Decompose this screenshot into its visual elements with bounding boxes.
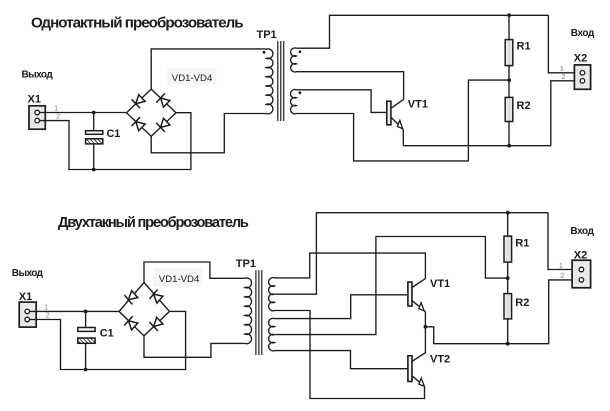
label VT1 bottom ckt [430, 278, 450, 290]
svg-text:C1: C1 [100, 327, 114, 339]
transformer TP1 secondary winding 2 (bottom) [291, 90, 298, 114]
capacitor C1 bottom plate hatched (bottom ckt) [78, 338, 95, 343]
capacitor C1 top plate [86, 131, 103, 135]
wire VT1 emitter to junction [424, 311, 425, 327]
label X2 [574, 52, 587, 64]
X2 bottom pin label 2 [560, 271, 564, 280]
label VT1 [408, 98, 428, 110]
connector X1 [29, 106, 45, 129]
VT1 emitter slant [391, 117, 402, 128]
X1 bottom pin label 1 [44, 302, 48, 311]
wire X1.2 bottom rail (bottom ckt) [30, 311, 186, 369]
svg-text:Вход: Вход [570, 226, 594, 237]
bridge diamond wires (bottom) [119, 283, 169, 336]
resistor R2 (bottom ckt) [504, 294, 512, 319]
X1 pin label 1 [54, 104, 58, 113]
TP1 primary phase dot [263, 51, 266, 54]
transistor VT1 base bar (bottom ckt) [408, 282, 412, 306]
wire R1 stem (bottom ckt) [507, 213, 509, 236]
transformer TP1 right winding lower (bottom ckt) [269, 318, 276, 351]
transformer TP1 core (bottom ckt) [256, 270, 262, 355]
wire top rail to X2 pin1 (bottom ckt) [548, 213, 572, 270]
svg-text:Двухтакный преоброзователь: Двухтакный преоброзователь [58, 215, 249, 231]
X1 pin label 2 [56, 112, 60, 121]
wire bridge bottom to TP1 primary bottom [151, 114, 265, 153]
svg-text:Вход: Вход [571, 28, 595, 39]
svg-text:2: 2 [561, 72, 565, 81]
wire R2 stem top (bottom ckt) [507, 278, 509, 294]
transistor VT2 base bar [408, 356, 412, 382]
svg-text:TP1: TP1 [257, 29, 277, 41]
wire sec2 top to VT1 base [297, 90, 387, 113]
svg-text:C1: C1 [107, 128, 121, 140]
svg-text:2: 2 [560, 271, 564, 280]
node junction R1 top (bottom ckt) [506, 211, 510, 215]
svg-text:X1: X1 [19, 291, 32, 303]
label Выход (output) [22, 70, 54, 81]
svg-text:VT1: VT1 [408, 98, 428, 110]
wire R1 to divider (bottom ckt) [507, 262, 509, 278]
label VD1-VD4 [172, 73, 213, 84]
wire X1.1 to bridge left (bottom ckt) [30, 310, 120, 312]
svg-text:R2: R2 [517, 100, 531, 112]
wire upper winding bottom to VT2 emitter [276, 311, 425, 399]
diode VD top-right (bottom) [150, 290, 164, 305]
connector X1 bottom [19, 302, 36, 327]
svg-text:R2: R2 [515, 297, 529, 309]
label Выход bottom [12, 268, 44, 279]
node junction C1 bottom (bottom ckt) [84, 368, 88, 372]
transformer TP1 core [278, 41, 284, 121]
label R1 bottom ckt [515, 237, 529, 249]
X2 pin label 1 [560, 64, 564, 73]
label Вход (input) [571, 28, 595, 39]
wire X1 pin2 down and along bottom [39, 113, 191, 170]
connector X2 [574, 65, 590, 89]
diode VD top-left [132, 94, 147, 109]
resistor R1 (bottom ckt) [504, 236, 512, 262]
resistor R2 [505, 97, 513, 121]
svg-text:R1: R1 [517, 40, 531, 52]
transformer TP1 left winding (bottom ckt) [244, 278, 252, 344]
transformer TP1 secondary winding 1 (top) [291, 48, 298, 72]
label X1 bottom [19, 291, 32, 303]
wire sec2 bottom to divider [297, 80, 509, 161]
bridge diamond wires [127, 89, 177, 136]
svg-text:Выход: Выход [22, 70, 54, 81]
label VD1-VD4 box (bottom) [153, 268, 202, 286]
VT1 collector slant (bottom ckt) [412, 279, 425, 288]
wire top rail to X2 pin1 [548, 15, 574, 73]
node junction R1 top [507, 13, 511, 17]
TP1 secondary2 phase dot [299, 91, 302, 94]
svg-text:VT2: VT2 [430, 353, 450, 365]
node junction C1 top (bottom ckt) [84, 310, 88, 314]
connector X2 bottom [572, 260, 591, 288]
label TP1 [257, 29, 277, 41]
node junction R2 bottom [507, 144, 511, 148]
VT1 emitter arrow (bottom ckt) [417, 303, 427, 313]
transistor VT1 base bar [387, 101, 391, 125]
wire C1 top stem [93, 113, 95, 131]
svg-text:Выход: Выход [12, 268, 44, 279]
wire bridge top to TP1 primary top [151, 49, 265, 89]
diode VD top-right [156, 94, 171, 109]
node junction C1 bottom [92, 168, 96, 172]
svg-text:1: 1 [559, 261, 563, 270]
VT1 emitter slant (bottom ckt) [412, 301, 423, 310]
diode VD top-left (bottom) [124, 290, 138, 305]
wire lower winding top to VT1 base [276, 295, 408, 319]
svg-text:R1: R1 [515, 237, 529, 249]
label TP1 bottom [236, 258, 256, 270]
label R1 [517, 40, 531, 52]
wire bridge top to TP1 (bottom ckt) [144, 262, 244, 283]
label Вход bottom [570, 226, 594, 237]
label X2 bottom [574, 250, 587, 262]
X2 bottom pin label 1 [559, 261, 563, 270]
wire C1 bottom stem [93, 144, 95, 170]
diode VD bottom-right (bottom) [149, 316, 164, 331]
label X1 [28, 94, 41, 106]
diode VD bottom-left [132, 117, 147, 132]
X1 bottom pin label 2 [46, 310, 50, 319]
node junction R2 bottom (bottom ckt) [506, 342, 510, 346]
svg-text:X2: X2 [574, 52, 587, 64]
label R2 [517, 100, 531, 112]
wire sec1 bottom to VT1 collector [297, 72, 403, 100]
label R2 bottom ckt [515, 297, 529, 309]
VT2 emitter slant [412, 376, 423, 385]
diode VD bottom-right [156, 117, 171, 132]
capacitor C1 top plate (bottom ckt) [78, 328, 95, 332]
TP1 secondary1 phase dot [299, 50, 302, 53]
node junction VT1 emitter / VT2 collector [424, 325, 428, 329]
label C1 bottom ckt [100, 327, 114, 339]
wire sec1 top to top rail [297, 15, 548, 48]
svg-text:TP1: TP1 [236, 258, 256, 270]
VT1 emitter arrow [396, 120, 406, 130]
diode VD bottom-left (bottom) [124, 316, 139, 331]
VT2 emitter arrow [417, 378, 427, 388]
label VT2 [430, 353, 450, 365]
resistor R1 [505, 40, 513, 66]
label C1 [107, 128, 121, 140]
wire X1 pin1 to bridge left [39, 112, 126, 114]
svg-text:Однотактный преоброзователь: Однотактный преоброзователь [31, 14, 243, 31]
wire R2 stem bottom (bottom ckt) [507, 319, 509, 344]
wire R2 stem top [508, 80, 510, 97]
wire VT2 collector [412, 327, 425, 362]
label VD1-VD4 (bottom) [159, 274, 200, 285]
transformer TP1 primary winding [265, 49, 273, 114]
wire R1 stem top [508, 15, 510, 39]
svg-text:VD1-VD4: VD1-VD4 [159, 274, 200, 285]
wire R1 to junction [508, 66, 510, 81]
wire bridge bottom to TP1 (bottom ckt) [144, 336, 244, 358]
capacitor C1 bottom plate (hatched) [86, 139, 103, 144]
svg-text:VD1-VD4: VD1-VD4 [172, 73, 213, 84]
transformer TP1 right winding upper (bottom ckt) [269, 278, 276, 311]
title: Двухтакный преоброзователь [58, 215, 249, 231]
node junction divider [507, 78, 511, 82]
node junction X1.1/C1 [92, 111, 96, 115]
wire VT1 emitter down [402, 129, 405, 146]
wire C1 stems (bottom ckt) [85, 311, 87, 369]
VT1 collector slant [391, 99, 404, 108]
wire upper winding top to VT1 collector [276, 253, 426, 279]
node junction divider (bottom ckt) [506, 276, 510, 280]
svg-text:X1: X1 [28, 94, 41, 106]
wire upper winding tap to top rail [276, 213, 549, 295]
wire lower winding tap to divider rail [276, 237, 508, 335]
wire R2 stem bottom [508, 122, 510, 146]
svg-text:VT1: VT1 [430, 278, 450, 290]
wire lower winding bottom to VT2 base [276, 351, 408, 369]
wire emitter rail to X2 pin2 [403, 81, 574, 146]
wire output junction to rail [425, 280, 572, 344]
title: Однотактный преоброзователь [31, 14, 243, 31]
X2 pin label 2 [561, 72, 565, 81]
label VD1-VD4 box [167, 68, 216, 85]
